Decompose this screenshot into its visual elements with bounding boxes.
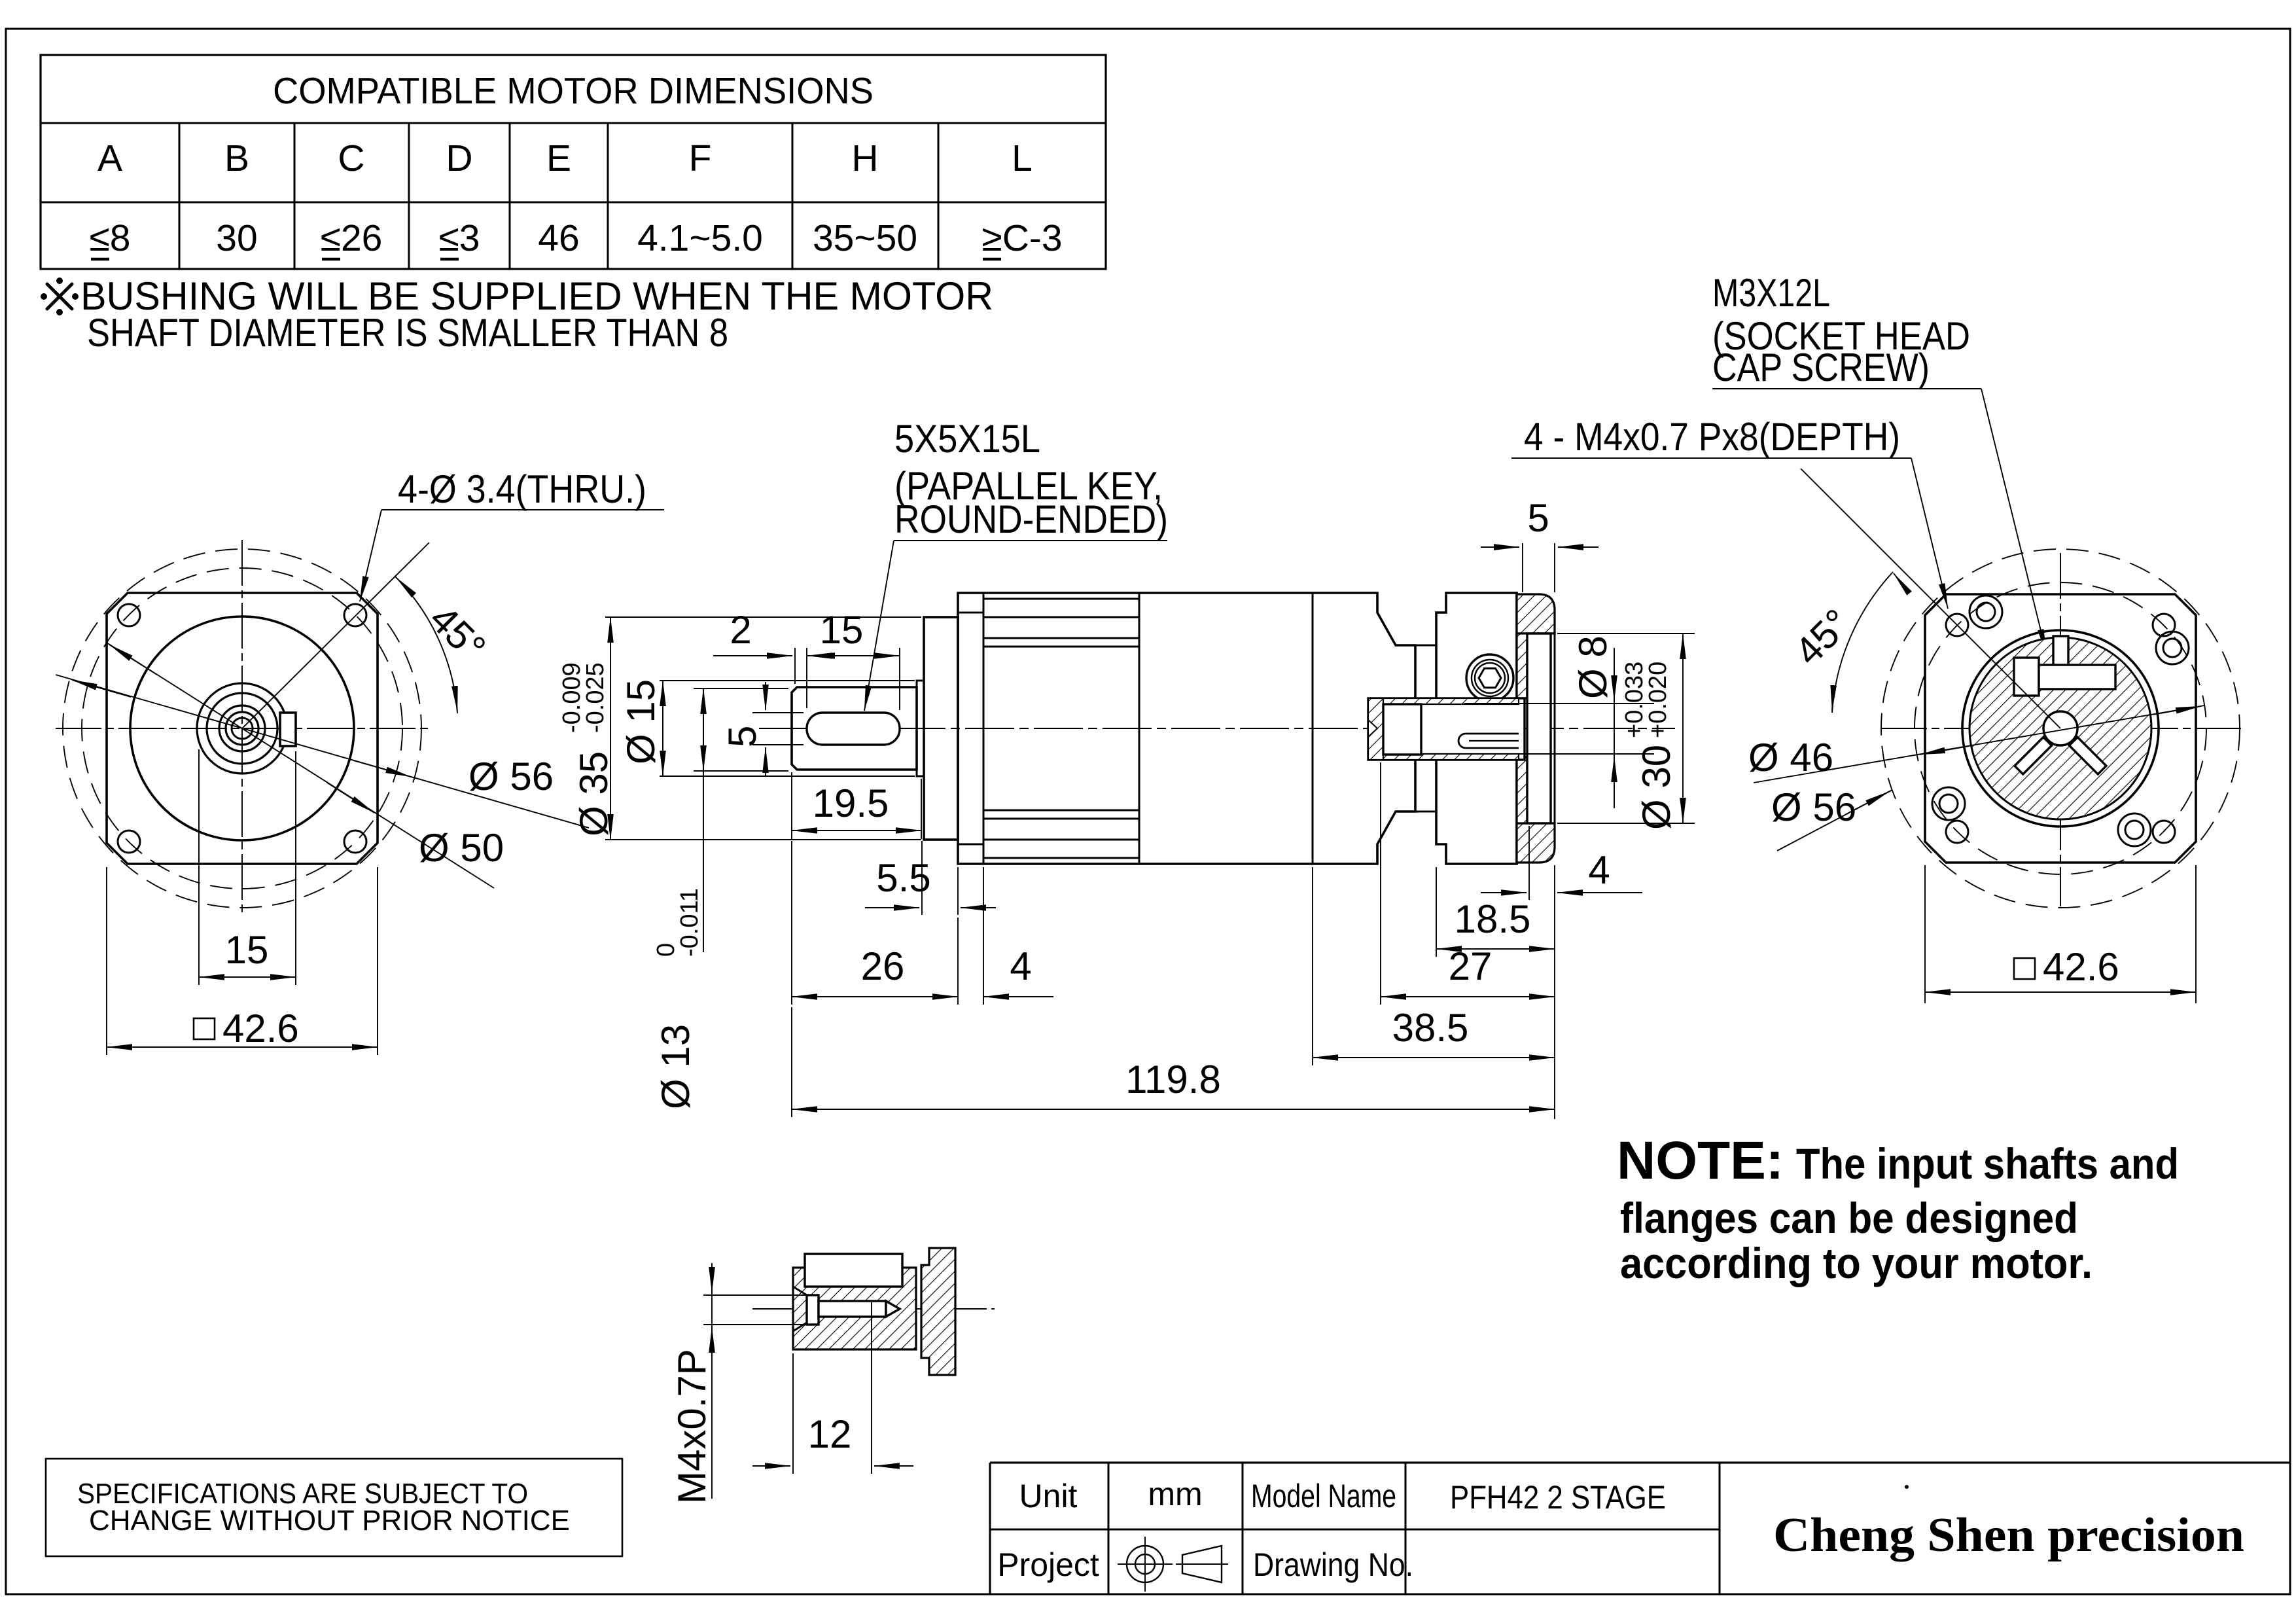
keyway slot rear [2053, 636, 2068, 687]
svg-text:-0.011: -0.011 [676, 888, 703, 957]
note text [1617, 1131, 2179, 1287]
dim 15 [198, 749, 200, 985]
svg-text:4-Ø 3.4(THRU.): 4-Ø 3.4(THRU.) [398, 467, 646, 511]
dim square 42.6 rear [1924, 865, 1926, 1003]
svg-text:5.5: 5.5 [876, 856, 930, 900]
counterbored screws [1932, 596, 2189, 846]
svg-text:≤26: ≤26 [321, 217, 383, 259]
housing section lines [983, 593, 985, 864]
svg-text:PFH42 2 STAGE: PFH42 2 STAGE [1450, 1479, 1666, 1516]
svg-text:12: 12 [808, 1412, 852, 1456]
dim 5.5 [921, 841, 923, 915]
svg-text:35~50: 35~50 [813, 217, 917, 259]
svg-text:Ø 50: Ø 50 [419, 826, 504, 870]
parallel key slot 5x5x15 [807, 713, 900, 745]
flange inner columns [1517, 633, 1527, 698]
dia 50 dimension line [107, 643, 494, 888]
axis centerline [759, 728, 1675, 729]
svg-text:27: 27 [1449, 944, 1492, 988]
svg-text:A: A [97, 137, 122, 179]
keyway on shaft [280, 713, 296, 746]
dim 4 rear [1528, 826, 1530, 900]
clamp bushing [1383, 704, 1421, 755]
clamp screw rear [2014, 658, 2039, 696]
M4 screw [807, 1295, 819, 1325]
dim 15 key [899, 648, 900, 710]
svg-text:≥C-3: ≥C-3 [981, 217, 1062, 259]
bushing remark (reference-mark symbol drawn manually) [41, 274, 993, 355]
dia 56 dimension line [56, 675, 589, 828]
countersink [793, 1287, 807, 1295]
svg-text:2: 2 [730, 608, 751, 652]
rear recess lip dia30 [1527, 633, 1551, 823]
dim dia35 [605, 616, 921, 618]
svg-text:Ø 30: Ø 30 [1634, 745, 1678, 830]
rear flange hatched top [1517, 594, 1555, 633]
svg-text:30: 30 [216, 217, 257, 259]
housing outline [958, 593, 1415, 864]
clamp slits [2069, 737, 2106, 774]
flange block [921, 1248, 955, 1375]
svg-text:D: D [446, 137, 472, 179]
rear (input side) view [1748, 469, 2241, 1003]
svg-text:≤8: ≤8 [90, 217, 131, 259]
dia 46 dimension [1754, 705, 2204, 783]
dia15 collar [917, 681, 924, 776]
svg-text:15: 15 [820, 608, 864, 652]
svg-text:Ø 56: Ø 56 [468, 755, 554, 798]
front (output side) view [56, 467, 664, 1055]
dim 27 [1380, 762, 1381, 1005]
rear flange hatched bottom [1517, 823, 1555, 863]
svg-text:CHANGE WITHOUT PRIOR NOTICE: CHANGE WITHOUT PRIOR NOTICE [89, 1505, 570, 1537]
svg-text:mm: mm [1148, 1476, 1202, 1512]
svg-text:The input shafts and: The input shafts and [1796, 1139, 2179, 1188]
dim dia30 [1557, 633, 1695, 634]
dim 4 front [983, 867, 984, 1005]
svg-text:COMPATIBLE MOTOR DIMENSIONS: COMPATIBLE MOTOR DIMENSIONS [273, 70, 874, 112]
svg-text:Cheng Shen precision: Cheng Shen precision [1773, 1508, 2244, 1562]
ring gear band lines bottom [983, 810, 1139, 811]
dia 56 dimension [1777, 790, 1892, 851]
third angle projection symbol [1127, 1546, 1163, 1582]
dim 26 [791, 841, 792, 1005]
svg-text:E: E [546, 137, 571, 179]
mounting holes dia3.4 [118, 604, 140, 626]
dim 38.5 [1312, 867, 1313, 1065]
corner holes [1946, 614, 1968, 636]
dim 18.5 [1436, 867, 1437, 957]
svg-text:+0.020: +0.020 [1644, 662, 1672, 738]
svg-text:F: F [689, 137, 712, 179]
title block [990, 1463, 2290, 1594]
ring gear band lines top [983, 598, 1139, 600]
svg-text:SHAFT DIAMETER IS SMALLER THAN: SHAFT DIAMETER IS SMALLER THAN 8 [87, 311, 728, 355]
svg-text:26: 26 [861, 944, 905, 988]
centerlines [1881, 728, 2241, 729]
svg-text:42.6: 42.6 [222, 1007, 299, 1050]
shaft circles [197, 683, 287, 774]
svg-text:M3X12L: M3X12L [1712, 271, 1830, 315]
input coupling sleeve [1368, 698, 1525, 760]
svg-text:5: 5 [1527, 496, 1549, 540]
dashed circle dia46 [1915, 582, 2206, 874]
recess circles [1962, 630, 2159, 827]
square flange [1925, 594, 2196, 863]
M3 socket head cap screw [1466, 654, 1513, 702]
45 degree line and arc [1801, 469, 2060, 728]
hatched coupling face [1969, 637, 2151, 819]
output shaft dia13 [792, 687, 917, 770]
dim 12 [792, 1353, 794, 1474]
svg-text:Ø 15: Ø 15 [619, 679, 663, 764]
dim 119.8 [791, 1007, 792, 1117]
dim dia15 [660, 680, 915, 681]
dim dia8 [1464, 703, 1654, 704]
svg-text:19.5: 19.5 [813, 781, 889, 825]
svg-text:according to your motor.: according to your motor. [1620, 1239, 2093, 1287]
input key slot [1458, 734, 1519, 748]
svg-text:Ø 13: Ø 13 [654, 1024, 698, 1109]
groove to adapter [1415, 645, 1436, 647]
svg-text:4: 4 [1010, 944, 1031, 988]
svg-text:Project: Project [997, 1546, 1099, 1583]
square flange outline [107, 593, 378, 864]
motor adapter ring [1436, 593, 1517, 864]
dashed circle dia56 [1881, 549, 2240, 908]
specifications box [46, 1459, 622, 1556]
svg-text:5: 5 [720, 726, 764, 747]
pilot boss dia35 [130, 616, 354, 840]
svg-text:Drawing No.: Drawing No. [1253, 1546, 1413, 1583]
svg-text:L: L [1012, 137, 1033, 179]
bolt circle dia 50 dashed [82, 568, 402, 889]
front face steps [958, 612, 983, 614]
svg-text:Ø 8: Ø 8 [1571, 635, 1615, 699]
svg-text:15: 15 [225, 928, 269, 972]
dim 5 flange [1522, 543, 1523, 592]
svg-text:Model Name: Model Name [1251, 1478, 1396, 1514]
svg-text:M4x0.7P: M4x0.7P [670, 1349, 714, 1504]
dim key width 5 [752, 712, 804, 713]
svg-text:B: B [224, 137, 249, 179]
M4 tapped hole detail section [670, 1248, 995, 1504]
dia35 pilot plate [924, 617, 958, 840]
clearance slot [805, 1254, 902, 1287]
svg-text:4: 4 [1588, 848, 1610, 892]
svg-text:H: H [851, 137, 878, 179]
svg-text:Ø 35: Ø 35 [572, 751, 616, 836]
dim dia13 [694, 688, 788, 689]
svg-text:38.5: 38.5 [1392, 1006, 1469, 1050]
svg-text:119.8: 119.8 [1125, 1058, 1221, 1101]
svg-text:4.1~5.0: 4.1~5.0 [637, 217, 763, 259]
dim 19.5 [791, 772, 792, 839]
centerlines [56, 728, 432, 729]
hatched plate [793, 1268, 916, 1349]
side section view [558, 271, 2047, 1119]
dim square 42.6 [106, 867, 107, 1055]
svg-text:5X5X15L: 5X5X15L [894, 417, 1040, 461]
dim 2 [794, 648, 796, 684]
svg-text:C: C [338, 137, 364, 179]
svg-text:42.6: 42.6 [2043, 945, 2119, 989]
dim M4x0.7P [703, 1294, 808, 1296]
svg-text:NOTE:: NOTE: [1617, 1131, 1784, 1190]
svg-text:ROUND-ENDED): ROUND-ENDED) [894, 497, 1168, 541]
compatible motor dimensions table [41, 55, 1106, 269]
svg-text:CAP SCREW): CAP SCREW) [1712, 346, 1930, 389]
svg-text:4 - M4x0.7 Px8(DEPTH): 4 - M4x0.7 Px8(DEPTH) [1524, 415, 1900, 459]
45 degree line and arc [242, 543, 429, 728]
svg-text:Ø 56: Ø 56 [1771, 785, 1856, 829]
svg-text:≤3: ≤3 [439, 217, 480, 259]
bolt circle dia 56 dashed [63, 549, 421, 908]
svg-text:Ø 46: Ø 46 [1748, 736, 1833, 779]
svg-text:Unit: Unit [1019, 1478, 1078, 1514]
svg-text:flanges can be designed: flanges can be designed [1620, 1194, 2078, 1242]
svg-text:46: 46 [538, 217, 579, 259]
input bore [2043, 711, 2077, 745]
svg-text:-0.025: -0.025 [582, 662, 609, 733]
svg-text:18.5: 18.5 [1455, 897, 1531, 941]
